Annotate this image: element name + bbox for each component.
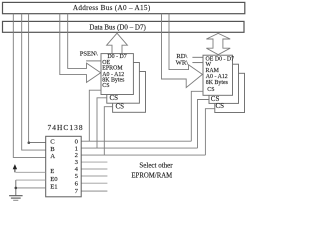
svg-text:WR\: WR\ [176, 60, 189, 67]
svg-text:74HC138: 74HC138 [48, 123, 84, 132]
svg-text:PSEN\: PSEN\ [80, 51, 98, 58]
svg-text:CS: CS [216, 102, 225, 110]
svg-text:E0: E0 [50, 176, 58, 183]
svg-text:CS: CS [207, 87, 214, 93]
svg-text:8K Bytes: 8K Bytes [206, 80, 229, 86]
svg-text:CS: CS [110, 94, 119, 102]
svg-text:Select other: Select other [139, 162, 173, 170]
svg-text:C: C [50, 138, 55, 145]
svg-text:EPROM/RAM: EPROM/RAM [131, 173, 172, 180]
svg-text:A: A [50, 153, 55, 160]
svg-text:E1: E1 [50, 183, 57, 190]
svg-text:E: E [50, 168, 54, 175]
svg-text:EPROM: EPROM [102, 66, 123, 72]
svg-text:D0 - D7: D0 - D7 [107, 54, 126, 60]
svg-text:CS: CS [116, 102, 125, 110]
svg-text:B: B [50, 146, 55, 153]
svg-text:Address Bus (A0 – A15): Address Bus (A0 – A15) [73, 4, 151, 12]
svg-text:Data Bus (D0 – D7): Data Bus (D0 – D7) [89, 24, 146, 32]
svg-text:2: 2 [75, 152, 78, 159]
svg-text:CS: CS [102, 83, 109, 89]
